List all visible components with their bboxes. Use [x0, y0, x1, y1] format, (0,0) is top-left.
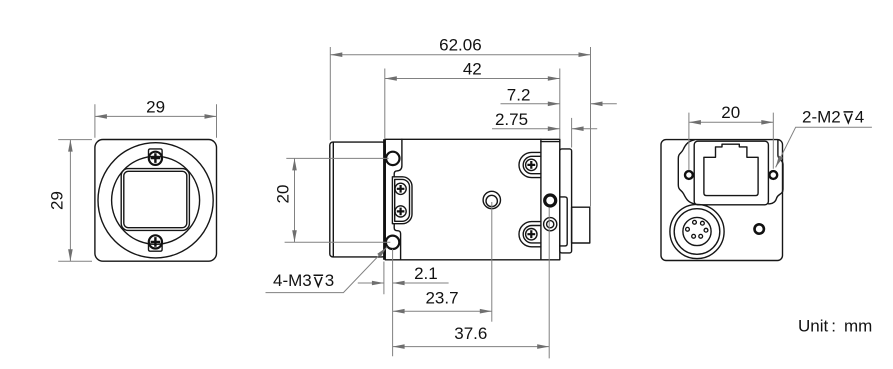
dim 29 left: extension lines [58, 140, 92, 262]
dim 2.75: extension line [571, 118, 573, 148]
label 4-M3 depth 3: leader [266, 247, 388, 293]
top right screw recess inner [523, 156, 541, 173]
lens mount outer circle [98, 143, 213, 258]
front plate thick edge [383, 139, 386, 259]
dim 29 left: dimension line [69, 140, 71, 262]
label 4-M3: depth symbol [314, 275, 324, 286]
lens barrel [330, 142, 385, 257]
svg-text:29: 29 [47, 191, 66, 210]
thumbscrew head [545, 195, 556, 206]
svg-text:20: 20 [721, 103, 740, 122]
dim 20 side: dimension line [294, 158, 296, 242]
status LED [755, 224, 764, 233]
top screw notch [149, 149, 163, 157]
boss screw lower [395, 206, 406, 217]
svg-text:37.6: 37.6 [454, 324, 487, 343]
center hole inner [486, 195, 497, 206]
svg-text:2-M2: 2-M2 [802, 107, 841, 126]
rear connector protrusion [572, 207, 590, 243]
dim 42: extension lines [385, 69, 560, 139]
svg-text:62.06: 62.06 [439, 36, 482, 55]
M2 screw hole left [685, 171, 693, 179]
dim 29 top: dimension line [95, 115, 217, 117]
svg-text:4-M3: 4-M3 [273, 271, 312, 290]
dim 23.7: extension line [491, 202, 493, 322]
dim 20 back: dimension line [689, 121, 773, 123]
top right screw recess outer [519, 152, 541, 177]
rear inner step [560, 197, 567, 246]
front housing square [95, 140, 217, 262]
svg-text:4: 4 [855, 107, 864, 126]
dim 20 back: extension lines [689, 113, 773, 171]
RJ45 bezel [694, 141, 768, 205]
top mounting hole [386, 152, 399, 165]
connector recess left wing [678, 140, 694, 204]
dim 7.2: arrows [501, 103, 560, 105]
screw boss inner [395, 179, 410, 221]
dim 37.6: dimension line [393, 346, 550, 348]
top screw [149, 152, 162, 165]
bottom right screw [526, 229, 537, 240]
dim 20 side: extension lines [285, 158, 391, 242]
svg-text:2.75: 2.75 [495, 110, 528, 129]
bottom screw [149, 235, 162, 248]
lens barrel front ring line [332, 142, 334, 256]
center hole outer [483, 191, 500, 208]
power connector pin circle [683, 217, 711, 245]
sensor window outer [121, 169, 189, 231]
connector recess right wing [768, 140, 783, 204]
bottom right screw recess outer [519, 222, 541, 247]
svg-text:Unit:mm: Unit:mm [798, 316, 872, 335]
svg-text:3: 3 [325, 271, 334, 290]
svg-text:7.2: 7.2 [507, 85, 531, 104]
dim 2.1: extension lines [384, 249, 393, 356]
dim 29 top: extension lines [95, 104, 217, 138]
power connector pins [686, 220, 708, 238]
front plate bottom tab [394, 224, 400, 260]
power connector middle ring [674, 209, 720, 255]
dim 2.1: arrows [358, 282, 384, 284]
label 2-M2 depth 4: leader [776, 127, 872, 167]
M2 screw hole right [769, 171, 777, 179]
back plate top lip [541, 141, 560, 143]
boss screw upper [395, 183, 406, 194]
power connector outer ring [670, 204, 724, 258]
top right screw [526, 159, 537, 170]
lens mount inner circle [112, 156, 200, 244]
bottom mounting hole [386, 236, 399, 249]
svg-text:42: 42 [463, 59, 482, 78]
RJ45 socket [704, 144, 758, 195]
dim 62.06: extension lines [330, 47, 590, 207]
front plate top tab [394, 139, 402, 177]
dim 42: dimension line [385, 78, 560, 80]
label 2-M2: depth symbol [844, 112, 854, 123]
back plate seam [540, 139, 542, 259]
rear housing step [560, 149, 572, 253]
svg-text:2.1: 2.1 [414, 264, 438, 283]
svg-text:20: 20 [273, 185, 292, 204]
dim 37.6: extension line [548, 208, 550, 359]
dim 23.7: dimension line [393, 310, 492, 312]
screw boss outer [392, 177, 412, 224]
svg-text:29: 29 [146, 97, 165, 116]
dim 2.75: arrows [492, 128, 560, 130]
bottom screw notch [149, 244, 163, 252]
back housing square [661, 140, 783, 261]
dim 62.06: dimension line [330, 54, 590, 56]
bottom right screw recess inner [523, 226, 541, 243]
camera body [385, 139, 560, 259]
sensor window inner [124, 171, 187, 227]
lock nut [544, 218, 557, 231]
svg-text:23.7: 23.7 [425, 289, 458, 308]
